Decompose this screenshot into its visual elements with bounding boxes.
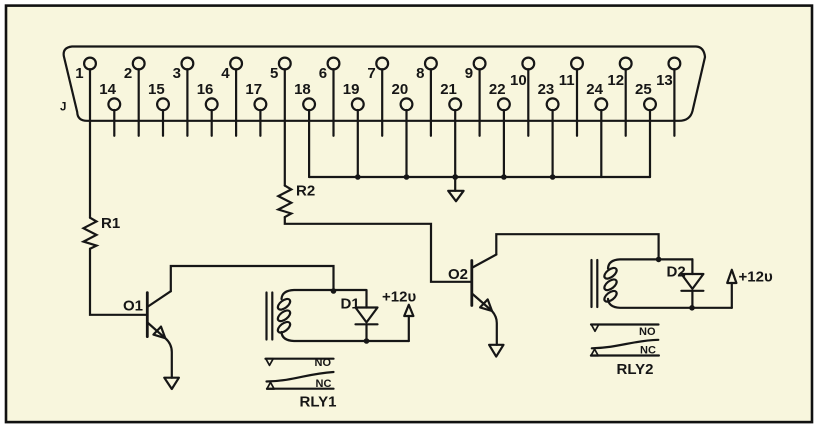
junction Q1 collector / RLY1 coil / D1 — [331, 288, 337, 294]
connector pin 10 — [510, 58, 534, 136]
connector pin 4 — [221, 58, 242, 136]
svg-text:O1: O1 — [123, 298, 143, 315]
resistor R1 — [84, 215, 121, 249]
connector pin 23 — [538, 81, 559, 177]
junction Q2 collector / RLY2 coil / D2 — [656, 257, 662, 263]
svg-text:15: 15 — [148, 81, 165, 98]
wire Q1 emitter to ground — [165, 338, 172, 378]
svg-text:8: 8 — [416, 65, 424, 82]
junction pin 21 to bus — [452, 174, 458, 180]
junction pin 22 to bus — [501, 174, 507, 180]
svg-text:NO: NO — [315, 357, 332, 369]
wire Q1 collector to RLY1 coil — [171, 266, 334, 291]
svg-text:24: 24 — [586, 81, 603, 98]
svg-text:3: 3 — [173, 65, 181, 82]
junction pin 23 to bus — [550, 174, 556, 180]
svg-text:D1: D1 — [341, 296, 360, 313]
connector pin 20 — [392, 81, 413, 177]
svg-text:NC: NC — [316, 378, 332, 390]
svg-text:7: 7 — [367, 65, 375, 82]
relay RLY1 NC contact — [267, 378, 334, 390]
resistor R2 — [278, 183, 315, 218]
wire R2 to Q2 base — [285, 217, 472, 282]
svg-text:14: 14 — [99, 81, 116, 98]
transistor Q2 — [448, 255, 496, 312]
svg-text:6: 6 — [319, 65, 327, 82]
svg-text:16: 16 — [197, 81, 214, 98]
svg-text:+12υ: +12υ — [739, 269, 773, 286]
junction D1 cathode / +12V rail — [364, 338, 370, 344]
ground symbol Q2 emitter — [489, 345, 503, 357]
connector pin 21 — [440, 81, 461, 177]
svg-text:20: 20 — [392, 81, 409, 98]
wire pin1/R1 to Q1 base — [90, 249, 147, 315]
diode D1 — [341, 290, 378, 341]
connector pin 14 — [99, 81, 120, 136]
connector J outline — [60, 47, 705, 121]
ground symbol Q1 emitter — [164, 378, 179, 389]
connector pin 7 — [367, 58, 388, 136]
svg-text:23: 23 — [538, 81, 555, 98]
svg-text:10: 10 — [510, 72, 527, 89]
svg-text:25: 25 — [635, 81, 652, 98]
connector pin 18 — [294, 81, 315, 177]
connector pin 6 — [319, 58, 340, 136]
svg-text:NC: NC — [640, 345, 656, 357]
junction pin 19 to bus — [355, 174, 361, 180]
connector pin 8 — [416, 58, 437, 136]
svg-text:1: 1 — [75, 65, 83, 82]
svg-text:O2: O2 — [448, 266, 468, 283]
connector pin 17 — [245, 81, 266, 136]
relay RLY2 label — [617, 361, 654, 378]
relay RLY2 armature — [592, 340, 659, 349]
svg-text:J: J — [60, 102, 66, 114]
svg-text:5: 5 — [270, 65, 278, 82]
svg-text:2: 2 — [124, 65, 132, 82]
connector pin 22 — [489, 81, 510, 177]
connector pin 25 — [635, 81, 656, 177]
svg-text:R2: R2 — [296, 183, 315, 200]
wire Q2 collector to RLY2 coil — [496, 234, 658, 259]
connector pin 5 — [270, 58, 291, 186]
ground bus wire (pins 18-25) — [309, 176, 650, 178]
svg-text:R1: R1 — [101, 215, 120, 232]
svg-text:12: 12 — [607, 72, 624, 89]
svg-text:D2: D2 — [667, 264, 686, 281]
relay RLY1 label — [300, 394, 337, 411]
svg-text:11: 11 — [559, 72, 575, 89]
svg-text:21: 21 — [440, 81, 457, 98]
connector pin 2 — [124, 58, 145, 136]
svg-text:22: 22 — [489, 81, 506, 98]
junction D2 cathode / +12V rail — [689, 305, 695, 311]
svg-text:RLY1: RLY1 — [300, 394, 337, 411]
connector pin 15 — [148, 81, 169, 136]
relay RLY2 NO contact — [591, 325, 659, 338]
relay RLY2 coil — [602, 259, 731, 307]
svg-text:13: 13 — [656, 72, 673, 89]
svg-text:9: 9 — [465, 65, 473, 82]
svg-text:NO: NO — [639, 326, 656, 338]
relay RLY2 coil core — [592, 260, 598, 307]
relay RLY1 NO contact — [266, 357, 334, 369]
diode D2 — [667, 259, 704, 307]
connector pin 3 — [173, 58, 194, 136]
relay RLY1 coil core — [267, 293, 273, 340]
svg-text:4: 4 — [221, 65, 230, 82]
relay RLY1 coil — [276, 290, 409, 341]
connector pin 1 — [75, 58, 96, 218]
+12V supply for RLY1 — [382, 289, 416, 342]
connector pin 12 — [607, 58, 631, 136]
relay RLY1 armature — [267, 372, 334, 382]
svg-text:RLY2: RLY2 — [617, 361, 654, 378]
svg-text:19: 19 — [343, 81, 360, 98]
connector pin 9 — [465, 58, 486, 136]
transistor Q1 — [123, 291, 171, 338]
svg-text:+12υ: +12υ — [382, 289, 416, 306]
ground symbol on bus — [448, 174, 463, 201]
svg-text:18: 18 — [294, 81, 311, 98]
connector pin 16 — [197, 81, 218, 136]
junction pin 20 to bus — [404, 174, 410, 180]
wire Q2 emitter to ground — [492, 311, 497, 345]
connector pin 11 — [559, 58, 583, 136]
relay RLY2 NC contact — [591, 345, 659, 357]
svg-text:17: 17 — [245, 81, 262, 98]
connector pin 19 — [343, 81, 364, 177]
connector pin 13 — [656, 58, 680, 136]
connector pin 24 — [586, 81, 607, 177]
+12V supply for RLY2 — [727, 269, 773, 308]
